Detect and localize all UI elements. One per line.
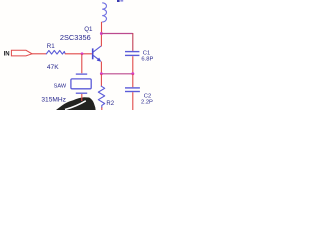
node base junction [81,52,84,55]
resistor R2 [98,86,104,107]
watermark logo swoosh [56,97,96,110]
port IN symbol [11,50,32,56]
svg-text:C2: C2 [144,93,151,99]
wire rail to R2 [100,74,102,86]
node rail left [100,72,103,75]
svg-text:IN: IN [4,52,10,58]
transistor Q1 emitter arrow [97,58,102,62]
wire rail to C2 [132,74,134,87]
capacitor C2 bottom plate [125,91,140,93]
wire R2 bottom stub [101,107,103,110]
inductor L1 coil [102,3,106,22]
label L1 cut off at top [117,0,120,2]
wire R1 to base [65,53,92,55]
node collector/coil junction [100,32,103,35]
svg-text:6.8P: 6.8P [141,57,153,63]
wire C2 to bottom edge [132,92,134,110]
wire corner down to C1 [132,33,134,51]
wire emitter down [100,62,102,75]
transistor Q1 collector stroke [93,46,101,52]
svg-text:SAW: SAW [54,84,67,90]
wire coil to top node [101,22,103,34]
SAW resonator bottom plate [76,92,87,94]
resistor R1 [46,51,65,55]
svg-text:C1: C1 [143,50,150,56]
capacitor C1 top plate [125,51,139,53]
transistor Q1 emitter stroke [93,55,99,60]
wire bottom rail [101,73,132,75]
svg-text:315MHz: 315MHz [41,96,66,103]
node rail right [131,72,134,75]
svg-text:R1: R1 [47,43,55,50]
wire C1 to rail [132,56,134,74]
capacitor C2 top plate [125,87,140,89]
SAW resonator top plate [76,73,87,75]
SAW resonator body [71,79,91,89]
svg-text:R2: R2 [106,101,114,107]
transistor Q1 base bar [92,48,94,59]
svg-text:2.2P: 2.2P [141,100,153,106]
wire collector up [100,34,102,47]
wire top horizontal run [101,33,132,35]
svg-text:2SC3356: 2SC3356 [60,33,91,42]
wire SAW bottom stub [81,94,83,101]
wire base node down to SAW [81,54,83,73]
capacitor C1 bottom plate [125,54,139,56]
wire port to R1 [31,53,46,55]
svg-text:47K: 47K [47,64,59,71]
